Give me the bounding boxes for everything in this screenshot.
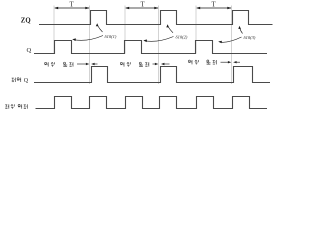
svg-text:Q: Q (24, 78, 29, 84)
svg-text:δ10(2): δ10(2) (176, 34, 188, 39)
svg-text:ZQ: ZQ (21, 17, 31, 24)
svg-text:Q: Q (27, 47, 32, 54)
svg-text:δ10(3): δ10(3) (244, 35, 256, 40)
svg-text:δ10(1): δ10(1) (105, 34, 117, 39)
